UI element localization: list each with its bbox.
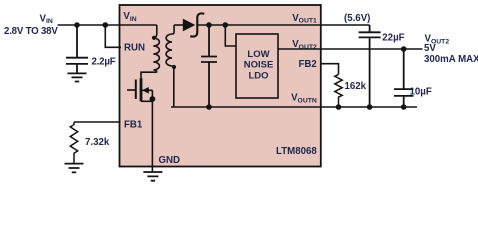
svg-text:VIN: VIN <box>40 13 53 25</box>
wire LDO input <box>225 25 236 46</box>
svg-text:RUN: RUN <box>124 43 145 54</box>
pin label GND <box>159 155 181 166</box>
LDO block U2 <box>236 34 278 98</box>
output label 300mA MAX <box>424 54 478 65</box>
wire FB2 <box>321 64 339 75</box>
capacitor C2 internal <box>201 25 217 107</box>
wire VOUT2 <box>278 48 423 50</box>
svg-text:NOISE: NOISE <box>244 60 274 71</box>
svg-text:162k: 162k <box>345 81 367 92</box>
svg-text:FB1: FB1 <box>124 119 143 130</box>
input label VIN <box>40 13 53 25</box>
wire VOUT1 rail <box>198 24 370 26</box>
output label 5V <box>424 43 436 54</box>
svg-text:22µF: 22µF <box>382 32 404 43</box>
svg-text:GND: GND <box>159 155 181 166</box>
transformer T1 secondary winding <box>166 25 174 68</box>
output label VOUT2 <box>425 34 450 46</box>
svg-text:2.2µF: 2.2µF <box>92 57 116 68</box>
svg-text:300mA MAX: 300mA MAX <box>424 54 478 65</box>
node VOUTN junction 162k <box>336 104 342 110</box>
node VOUT1 junction B <box>223 22 229 28</box>
node VOUT2 junction 10uF <box>401 46 407 52</box>
svg-text:10µF: 10µF <box>410 87 432 98</box>
module U1 LTM8068 body <box>120 5 321 167</box>
capacitor C4 10uF <box>394 49 432 107</box>
pin label FB1 <box>124 119 143 130</box>
svg-text:5V: 5V <box>424 43 436 54</box>
wire secondary top to diode <box>174 24 183 26</box>
pin label VOUTN <box>291 93 317 105</box>
node input junction 1 <box>74 22 80 28</box>
diode D1 schottky <box>183 13 205 36</box>
svg-text:7.32k: 7.32k <box>85 137 110 148</box>
part number LTM8068 <box>276 146 317 157</box>
pin label VOUT1 <box>292 13 317 25</box>
svg-text:(5.6V): (5.6V) <box>344 13 370 24</box>
wire secondary bottom to VOUTN rail <box>173 68 175 107</box>
ground FB1 <box>65 164 84 173</box>
capacitor C3 22uF <box>359 25 405 107</box>
wire RUN branch <box>105 25 121 47</box>
wire FB1 <box>74 121 121 123</box>
capacitor C1 2.2uF <box>66 25 116 73</box>
wire GND pin <box>151 101 153 172</box>
node VOUT1 junction A <box>206 22 212 28</box>
node VOUTN junction 10uF <box>401 104 407 110</box>
resistor R1 7.32k <box>70 122 110 164</box>
phase dot secondary <box>172 65 176 69</box>
node input junction 2 <box>103 22 109 28</box>
svg-text:FB2: FB2 <box>298 59 316 70</box>
svg-text:2.8V TO 38V: 2.8V TO 38V <box>4 26 58 37</box>
pin label RUN <box>124 43 145 54</box>
ground module GND <box>143 172 162 181</box>
resistor R2 162k <box>335 74 367 107</box>
pin label VOUT2 <box>292 39 317 51</box>
svg-text:LOW: LOW <box>247 49 269 60</box>
input label 2.8V TO 38V <box>4 26 58 37</box>
ground input <box>68 73 87 81</box>
pin label VIN <box>123 11 136 23</box>
node Q1 source junction <box>150 96 156 102</box>
svg-text:LTM8068: LTM8068 <box>276 146 317 157</box>
wire input rail <box>58 24 157 26</box>
pin label FB2 <box>298 59 316 70</box>
transformer T1 primary winding <box>153 25 159 72</box>
phase dot primary <box>152 36 156 40</box>
node VOUTN junction 22uF <box>367 104 373 110</box>
wire VOUTN rail <box>171 106 417 108</box>
node internal VOUTN junction <box>206 104 212 110</box>
label 5.6V <box>344 13 370 24</box>
svg-text:LDO: LDO <box>248 70 268 81</box>
transistor Q1 NMOS switch <box>127 72 157 101</box>
